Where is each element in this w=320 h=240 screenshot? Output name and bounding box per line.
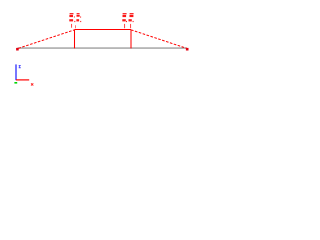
- axis label z (blue micro-glyph): [19, 65, 21, 68]
- load value label left 1 (rotated micro-text): [69, 13, 75, 22]
- axis label x (red micro-glyph): [31, 83, 33, 85]
- load polygon right ramp (dashed red diagonal): [131, 30, 187, 49]
- leader tick left label 2 (faint): [75, 25, 77, 28]
- node N1 (left red square): [16, 48, 19, 51]
- leader tick right label 2: [130, 24, 132, 28]
- axis triad Y marker (green dash): [14, 82, 17, 84]
- load polygon top edge: [75, 29, 132, 31]
- load value label right 2 (rotated micro-text): [129, 13, 134, 22]
- axis triad Z axis (blue vertical): [15, 64, 17, 80]
- load polygon left ramp (dashed red diagonal): [18, 30, 74, 49]
- leader tick left label 1: [71, 24, 73, 28]
- load polygon right vertical: [130, 30, 132, 49]
- axis triad X axis (red horizontal): [16, 79, 29, 81]
- load value label left 2 (rotated micro-text): [76, 13, 81, 22]
- node N2 (right red square): [186, 48, 189, 51]
- beam member (gray line): [18, 47, 187, 49]
- load polygon left vertical: [74, 30, 76, 49]
- load value label right 1 (rotated micro-text): [122, 13, 127, 22]
- leader tick right label 1: [124, 24, 126, 28]
